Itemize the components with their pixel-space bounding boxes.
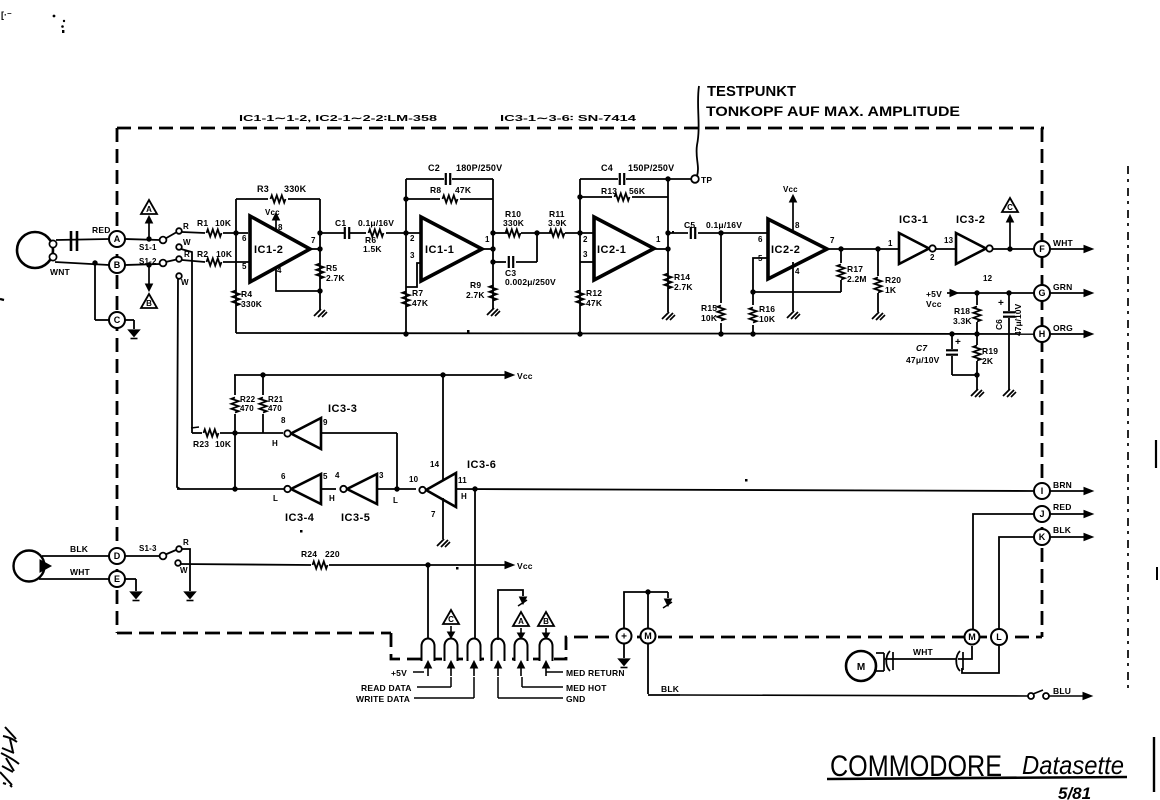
svg-text:H: H [272, 439, 278, 448]
junction +5V drop [425, 562, 430, 567]
node F [1034, 241, 1050, 257]
svg-text:8: 8 [795, 221, 800, 230]
junction IC1-1 in [403, 230, 408, 235]
wire pin 3 IC2-1 [580, 261, 594, 263]
svg-text:R15: R15 [701, 303, 717, 313]
junction IC1-1 apex [490, 246, 495, 251]
capacitor C4 rail [580, 178, 618, 180]
svg-text:7: 7 [830, 236, 835, 245]
svg-text:W: W [180, 566, 188, 575]
capacitor C1 [344, 227, 346, 239]
svg-text:A: A [114, 234, 121, 244]
page edge mark right bottom [1153, 737, 1155, 792]
dashed border connector notch [391, 633, 1042, 659]
connector pin 1 arrow [427, 666, 429, 676]
connector pin 6 bullet [540, 639, 553, 661]
svg-text:10K: 10K [701, 313, 718, 323]
wire M circle up [647, 592, 649, 629]
junction R18 bottom [974, 331, 979, 336]
ground under E [131, 592, 142, 599]
junction pin14 rail [440, 372, 445, 377]
svg-text:0.1μ/16V: 0.1μ/16V [706, 220, 742, 230]
warning triangle A [141, 200, 157, 214]
ground R19 [971, 389, 978, 396]
svg-text:10K: 10K [215, 439, 232, 449]
ground under C [129, 330, 140, 337]
junction M2 top [645, 589, 650, 594]
left rail IC1-1 [405, 179, 407, 334]
wire IC3-2 out to F [992, 248, 1034, 250]
resistor R15 [720, 233, 722, 303]
svg-text:8: 8 [278, 223, 283, 232]
connector pin 4 arrow [497, 666, 499, 676]
write line to IC3-4 [177, 488, 284, 490]
svg-text:R20: R20 [885, 275, 901, 285]
svg-text:2.7K: 2.7K [466, 290, 485, 300]
wire to WRITE DATA pin [474, 489, 476, 640]
svg-text:READ DATA: READ DATA [361, 683, 412, 693]
svg-text:1K: 1K [885, 285, 897, 295]
svg-text:0.002μ/250V: 0.002μ/250V [505, 277, 556, 287]
svg-text:R: R [183, 538, 189, 547]
capacitor C7 [951, 334, 953, 349]
svg-text:A: A [518, 617, 524, 626]
svg-text:WNT: WNT [50, 267, 71, 277]
svg-text:14: 14 [430, 460, 440, 469]
svg-text:MED RETURN: MED RETURN [566, 668, 625, 678]
svg-text:10K: 10K [216, 249, 233, 259]
svg-text:13: 13 [944, 236, 954, 245]
node H [1034, 326, 1050, 342]
junction rail R16 [750, 331, 755, 336]
svg-text:56K: 56K [629, 186, 646, 196]
motor connector left [886, 651, 890, 671]
svg-text:3.9K: 3.9K [548, 218, 567, 228]
svg-text:H: H [461, 492, 467, 501]
svg-text:220: 220 [325, 549, 340, 559]
wire J to M node [973, 514, 1034, 629]
ground rail bottom [236, 333, 1034, 334]
node B [109, 257, 125, 273]
svg-text:IC3-1∼3-6∶ SN-7414: IC3-1∼3-6∶ SN-7414 [500, 113, 636, 123]
resistor R11 [550, 229, 565, 236]
resistor R17 [840, 249, 842, 263]
svg-text:S1-1: S1-1 [139, 243, 157, 252]
inverter IC3-4 [291, 474, 321, 504]
svg-text:G: G [1038, 288, 1045, 298]
connector pin 4 bullet [492, 639, 505, 661]
svg-text:3: 3 [379, 471, 384, 480]
Vcc arrow IC2-2 [792, 201, 794, 230]
resistor R16 [752, 292, 754, 305]
warning triangle A above pin5 [513, 612, 529, 626]
dashed border left [116, 128, 119, 633]
svg-text:R8: R8 [430, 185, 441, 195]
feedback rail IC1-2 left [235, 199, 237, 333]
capacitor C5 [690, 227, 692, 239]
connector pin 5 arrow [520, 666, 522, 676]
resistor R24 [313, 561, 328, 568]
connector pin 3 arrow [473, 666, 475, 676]
resistor R4 [232, 291, 239, 306]
node C [109, 312, 125, 328]
svg-text:180P/250V: 180P/250V [456, 163, 502, 173]
junction R22 write line [232, 486, 237, 491]
svg-text:4: 4 [795, 267, 800, 276]
svg-text:6: 6 [242, 234, 247, 243]
test point TP [668, 178, 691, 180]
svg-text:2: 2 [410, 234, 415, 243]
svg-text:3: 3 [410, 251, 415, 260]
wire IC3-6 output to I [456, 489, 1034, 491]
svg-text:I: I [1041, 486, 1044, 496]
arrow to warning triangle C [1009, 222, 1011, 249]
svg-text:C: C [1007, 203, 1013, 212]
Vcc arrow R24 [505, 562, 514, 569]
wire IC2-2 output [827, 248, 899, 250]
ground S1-3 R [185, 592, 196, 599]
wire IC2-1 apex to node [654, 248, 668, 250]
svg-text:BRN: BRN [1053, 480, 1072, 490]
speck near C3 [467, 330, 470, 333]
wire BLU out [1049, 695, 1084, 697]
node I [1034, 483, 1050, 499]
node G [1034, 285, 1050, 301]
svg-text:+: + [621, 632, 627, 643]
wire pin 3 IC1-1 [406, 263, 421, 287]
speck dash left [191, 427, 199, 428]
wire pin 14 IC3-6 [442, 375, 444, 480]
arrow F out [1050, 248, 1085, 250]
junction IC2-1 in [577, 230, 582, 235]
svg-text:R: R [183, 222, 189, 231]
svg-text:47K: 47K [412, 298, 429, 308]
svg-text:R23: R23 [193, 439, 209, 449]
junction IC2-1 apex [665, 246, 670, 251]
ground pin 7 [437, 539, 444, 546]
svg-text:B: B [114, 260, 121, 270]
wire S1-3 R to ground [182, 549, 190, 591]
svg-text:2.7K: 2.7K [674, 282, 693, 292]
svg-text:11: 11 [458, 476, 467, 485]
resistor R9 [489, 286, 496, 301]
svg-text:IC3-2: IC3-2 [956, 214, 985, 226]
wire pin4 hook to chassis [498, 590, 523, 640]
svg-text:GND: GND [566, 694, 586, 704]
junction warning B [146, 262, 151, 267]
capacitor C3 [493, 261, 506, 263]
wire IC2-1 out to C5 [668, 232, 688, 234]
wire head to node A [56, 239, 109, 240]
svg-text:[·⁻: [·⁻ [1, 10, 12, 20]
svg-text:4: 4 [335, 471, 340, 480]
warning triangle B [141, 294, 157, 308]
dashed border right [1041, 128, 1044, 637]
wire BLK to switch [648, 694, 680, 696]
svg-text:C: C [114, 315, 121, 325]
svg-text:W: W [181, 278, 189, 287]
svg-text:K: K [1039, 532, 1046, 542]
junction rail IC1-1 [403, 331, 408, 336]
wire connector to M node [958, 646, 972, 659]
page edge mark right upper [1155, 440, 1157, 468]
svg-text:BLK: BLK [70, 544, 89, 554]
op-amp IC1-1 [421, 217, 482, 281]
svg-text:Datasette: Datasette [1022, 750, 1124, 780]
svg-text:2.2M: 2.2M [847, 274, 867, 284]
wire M circle to BLK [647, 644, 649, 694]
warning triangle C [1002, 198, 1018, 212]
motor M [846, 651, 876, 681]
wire IC3-4 to IC3-5 [321, 488, 336, 490]
node D [109, 548, 125, 564]
warning triangle C above pin2 [443, 610, 459, 624]
wire D to S1-3 [125, 555, 160, 557]
svg-text:IC3-3: IC3-3 [328, 403, 357, 415]
svg-text:+5V: +5V [391, 668, 407, 678]
svg-text:Vcc: Vcc [265, 208, 280, 217]
svg-text:B: B [146, 299, 152, 308]
junction node L [394, 486, 399, 491]
wire W2 contact down [177, 279, 180, 489]
svg-text:M: M [968, 632, 976, 642]
wire IC3-3 input [321, 432, 397, 434]
junction R21 top [260, 372, 265, 377]
record-play head [17, 232, 53, 268]
connector bars on head wire [70, 231, 73, 251]
speck bottom [745, 479, 748, 482]
junction C7 bottom [974, 372, 979, 377]
svg-text:Vcc: Vcc [517, 371, 533, 381]
svg-text:10: 10 [409, 475, 419, 484]
output rail IC1-1 [492, 179, 494, 309]
wire IC1-1 apex to node [482, 248, 493, 250]
node A [109, 231, 125, 247]
svg-text:470: 470 [240, 404, 254, 413]
svg-text:7: 7 [311, 236, 316, 245]
resistor R21 [262, 375, 264, 395]
svg-text:3: 3 [583, 250, 588, 259]
svg-text:47μ/10V: 47μ/10V [906, 355, 940, 365]
svg-text:RED: RED [92, 225, 111, 235]
wire head to D [42, 555, 109, 557]
svg-text:+: + [955, 337, 961, 348]
ground IC2-2 pin4 [787, 311, 794, 318]
node K [1034, 529, 1050, 545]
wire E to ground [125, 578, 136, 580]
svg-text:IC1-1: IC1-1 [425, 244, 454, 256]
resistor R12 [576, 291, 583, 306]
wire head to node B [55, 262, 109, 265]
svg-text:R21: R21 [268, 395, 284, 404]
svg-text:47K: 47K [586, 298, 603, 308]
connector pin 5 bullet [515, 639, 528, 661]
wire C to ground [125, 319, 134, 321]
svg-text:IC3-1: IC3-1 [899, 214, 928, 226]
wire W1 contact down [181, 249, 192, 431]
op-amp IC2-2 [768, 219, 827, 279]
svg-text:150P/250V: 150P/250V [628, 163, 674, 173]
wire plus circle up [624, 592, 668, 629]
svg-text:7: 7 [431, 510, 436, 519]
svg-text:S1-3: S1-3 [139, 544, 157, 553]
dashed border top [117, 127, 1044, 130]
svg-text:IC3-4: IC3-4 [285, 512, 315, 524]
svg-text:2: 2 [930, 253, 935, 262]
junction feedback [750, 289, 755, 294]
chassis arrow motor supply [667, 592, 669, 598]
svg-text:10K: 10K [759, 314, 776, 324]
resistor R13 rail [580, 196, 612, 198]
arrow H out [1050, 333, 1085, 335]
svg-text:12: 12 [983, 274, 993, 283]
svg-text:Vcc: Vcc [926, 299, 942, 309]
junction C7 top [949, 331, 954, 336]
ground IC2-1 output rail [662, 312, 669, 319]
junction R8 left [403, 196, 408, 201]
connector pin 2 arrow [450, 666, 452, 676]
wire IC1-1 out [493, 232, 508, 234]
svg-text:1: 1 [888, 239, 893, 248]
svg-text:RED: RED [1053, 502, 1072, 512]
resistor R1 [182, 232, 205, 233]
svg-text:0.1μ/16V: 0.1μ/16V [358, 218, 394, 228]
svg-text:6: 6 [758, 235, 763, 244]
resistor R3 [236, 198, 268, 200]
junction warning C [1007, 246, 1012, 251]
svg-text:C7: C7 [916, 343, 928, 353]
svg-text:C4: C4 [601, 163, 613, 173]
svg-text:R24: R24 [301, 549, 317, 559]
junction IC1-2 out top [317, 230, 322, 235]
svg-text:R14: R14 [674, 272, 690, 282]
svg-text:WRITE DATA: WRITE DATA [356, 694, 410, 704]
resistor R20 [877, 249, 879, 276]
svg-text:6: 6 [281, 472, 286, 481]
junction R22 R23 [232, 430, 237, 435]
motor terminal bracket [876, 652, 884, 654]
svg-text:5/81: 5/81 [1058, 784, 1091, 800]
erase head [14, 551, 45, 582]
svg-text:J: J [1039, 509, 1044, 519]
handwritten margin note [0, 727, 19, 787]
svg-text:5: 5 [242, 262, 247, 271]
warning triangle B above pin6 [538, 612, 554, 626]
svg-text:+5V: +5V [926, 289, 942, 299]
node J [1034, 506, 1050, 522]
svg-text:47K: 47K [455, 185, 472, 195]
wire WHT motor [884, 658, 956, 660]
svg-text:2: 2 [583, 235, 588, 244]
junction R18 top [974, 290, 979, 295]
output rail IC2-1 [667, 179, 669, 312]
svg-text:R2: R2 [197, 249, 208, 259]
svg-text:R17: R17 [847, 264, 863, 274]
resistor R22 [234, 375, 236, 395]
ground R20 [872, 312, 879, 319]
left rail IC2-1 [579, 179, 581, 334]
resistor R8 rail [406, 198, 440, 200]
svg-text:1: 1 [656, 235, 661, 244]
inverter IC3-2 [956, 233, 986, 264]
page edge tick left [0, 299, 4, 300]
svg-text:C: C [448, 615, 454, 624]
wire pin 7 IC3-6 [442, 498, 444, 539]
wire B to S1-2 [125, 264, 160, 265]
svg-text:IC3-5: IC3-5 [341, 512, 370, 524]
Vcc rail IC3 block [234, 374, 506, 376]
handwritten leader line to testpoint [697, 86, 699, 176]
svg-text:R3: R3 [257, 184, 269, 194]
node plus [617, 629, 632, 644]
capacitor C2 rail [406, 178, 444, 180]
arrow to warning triangle A [148, 223, 150, 239]
junction write data drop [472, 486, 477, 491]
junction IC1-2 pin4 [317, 288, 322, 293]
scan artifact dots top-left [53, 15, 56, 18]
Vcc arrow IC1-2 [275, 219, 277, 230]
svg-text:GRN: GRN [1053, 282, 1073, 292]
switch S1-2 [160, 260, 167, 267]
svg-text:10K: 10K [215, 218, 232, 228]
node E [109, 571, 125, 587]
svg-text:M: M [857, 662, 865, 673]
wire IC1-2 out to C1 [320, 232, 344, 234]
svg-text:IC1-1∼1-2, IC2-1∼2-2∶LM-358: IC1-1∼1-2, IC2-1∼2-2∶LM-358 [239, 113, 437, 123]
speck mid page [672, 231, 674, 233]
connector pin 3 bullet [468, 639, 481, 661]
junction IC1-1 C3 [490, 259, 495, 264]
wire K to L node [999, 537, 1034, 629]
svg-text:+: + [998, 298, 1004, 309]
arrow J out [1050, 513, 1085, 515]
switch S1-1 [160, 237, 167, 244]
svg-text:IC3-6: IC3-6 [467, 459, 496, 471]
svg-text:R12: R12 [586, 288, 602, 298]
svg-text:TESTPUNKT: TESTPUNKT [707, 83, 796, 100]
svg-text:L: L [996, 632, 1002, 642]
wire shield to C [94, 263, 96, 320]
inverter IC3-1 [899, 233, 929, 264]
svg-text:MED HOT: MED HOT [566, 683, 607, 693]
svg-text:Vcc: Vcc [783, 185, 798, 194]
svg-text:330K: 330K [503, 218, 525, 228]
ground IC1-1 output rail [487, 308, 494, 315]
junction warning A [146, 236, 151, 241]
svg-text:ORG: ORG [1053, 323, 1073, 333]
svg-text:1.5K: 1.5K [363, 244, 382, 254]
inverter IC3-5 [347, 474, 377, 504]
resistor R7 [402, 292, 409, 307]
svg-text:8: 8 [281, 416, 286, 425]
resistor R6 [350, 232, 366, 234]
svg-text:R7: R7 [412, 288, 423, 298]
node M motor [965, 630, 980, 645]
dashed border bottom-left [117, 632, 391, 635]
svg-text:B: B [543, 617, 549, 626]
speck near IC3-4 [300, 530, 303, 533]
junction IC2-1 out wire [665, 230, 670, 235]
svg-text:E: E [114, 574, 120, 584]
svg-text:IC1-2: IC1-2 [254, 244, 283, 256]
svg-text:WHT: WHT [1053, 238, 1074, 248]
chassis arrow pin4 [520, 597, 527, 604]
capacitor C6 [1008, 293, 1010, 311]
motor switch [1028, 693, 1034, 699]
speck near R24 [456, 567, 459, 570]
resistor R5 [316, 264, 323, 279]
svg-text:5: 5 [323, 472, 328, 481]
